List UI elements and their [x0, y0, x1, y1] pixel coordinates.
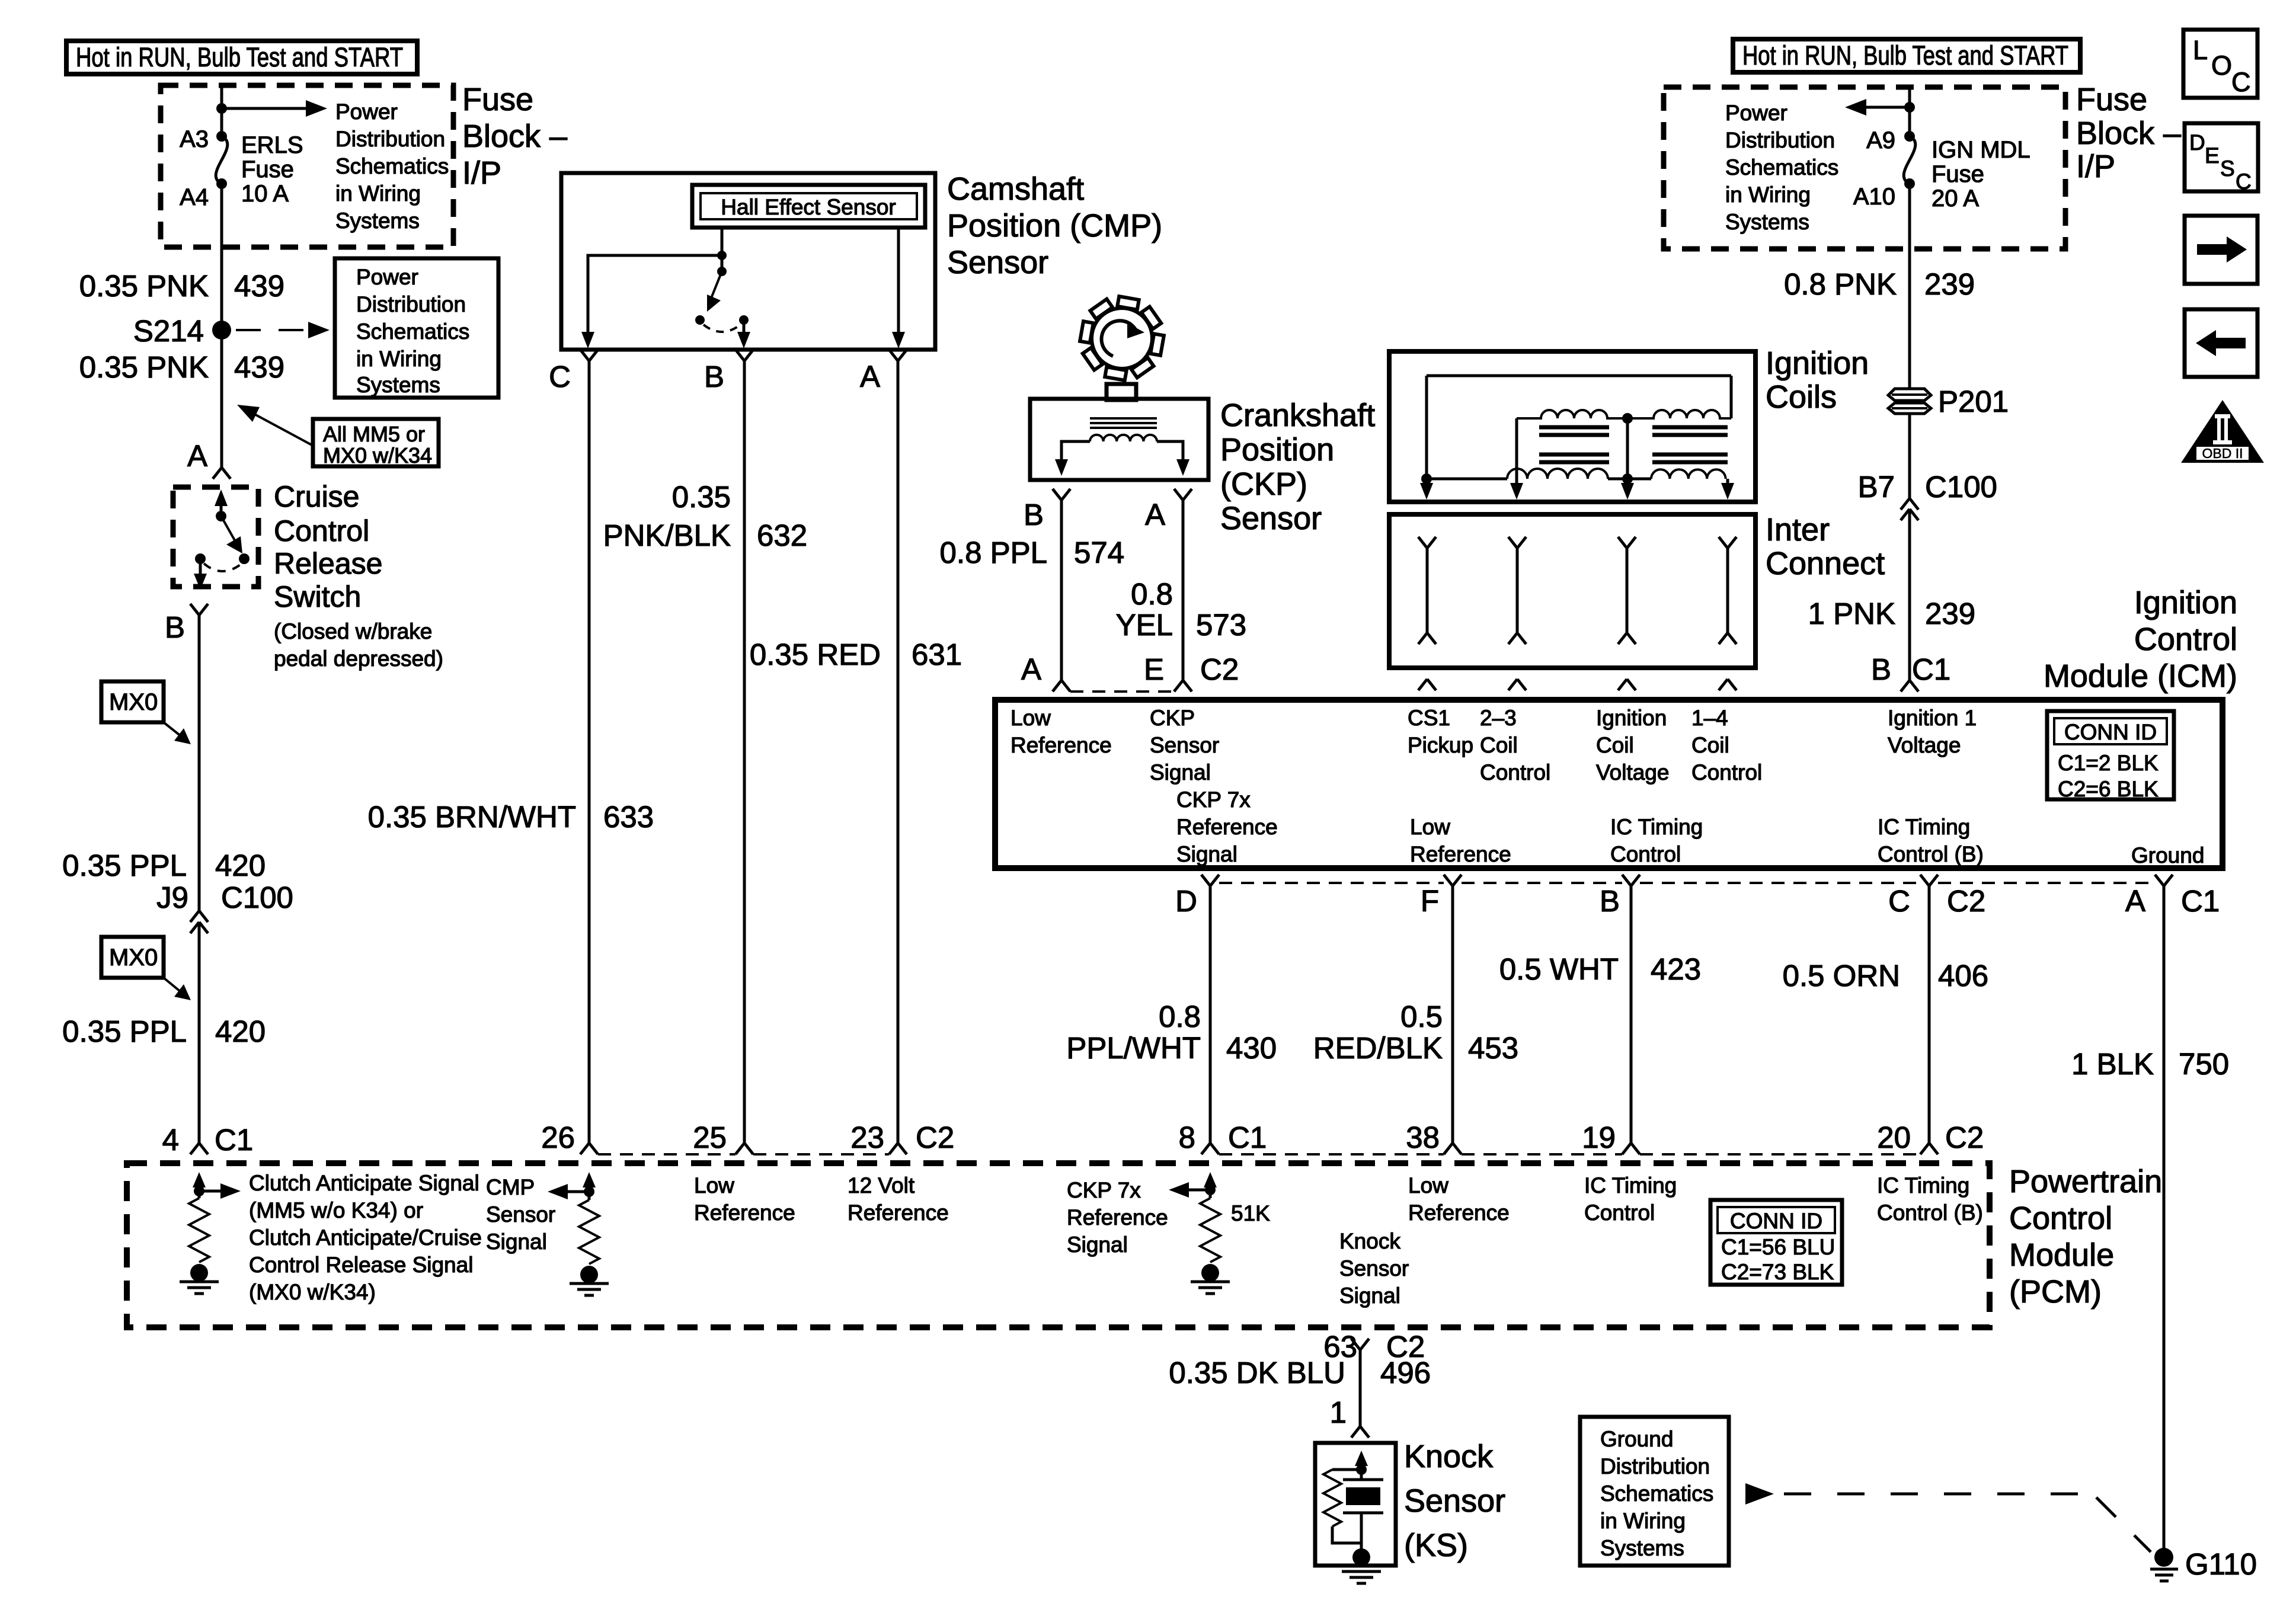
svg-text:(MX0 w/K34): (MX0 w/K34): [249, 1280, 376, 1304]
svg-text:453: 453: [1468, 1031, 1518, 1065]
wire: 0.8 PNK 239: [1908, 184, 1911, 390]
svg-text:A4: A4: [180, 184, 209, 210]
svg-text:Powertrain: Powertrain: [2009, 1164, 2162, 1199]
svg-text:All MM5 or: All MM5 or: [323, 422, 425, 446]
svg-text:I/P: I/P: [2076, 149, 2115, 184]
svg-text:(PCM): (PCM): [2009, 1274, 2102, 1310]
svg-text:Module: Module: [2009, 1237, 2114, 1273]
svg-text:420: 420: [215, 849, 266, 882]
transformer 1 core: [1539, 427, 1609, 462]
CMP pins C B A: [580, 350, 598, 361]
svg-text:Camshaft: Camshaft: [947, 171, 1084, 207]
svg-text:(KS): (KS): [1404, 1528, 1468, 1563]
svg-text:Low: Low: [694, 1173, 734, 1198]
svg-text:Signal: Signal: [1150, 760, 1211, 785]
svg-text:PNK/BLK: PNK/BLK: [603, 518, 731, 552]
svg-text:C1: C1: [1912, 652, 1950, 686]
svg-text:C1: C1: [2181, 884, 2220, 918]
gear icon: [1080, 296, 1164, 380]
svg-text:632: 632: [757, 518, 807, 552]
svg-text:S: S: [2220, 156, 2235, 181]
svg-text:12 Volt: 12 Volt: [848, 1173, 915, 1198]
svg-text:Knock: Knock: [1339, 1229, 1400, 1253]
svg-text:Control: Control: [1584, 1201, 1655, 1225]
ignition coils box: [1389, 351, 1755, 502]
svg-text:0.35 PNK: 0.35 PNK: [79, 269, 209, 303]
box: All MM5 or MX0 w/K34: [313, 419, 439, 466]
CKP pins B A: [1053, 489, 1070, 500]
svg-text:MX0: MX0: [109, 945, 158, 971]
MX0 flag 1: [101, 681, 164, 722]
svg-text:Reference: Reference: [1067, 1205, 1168, 1230]
box: Hot in RUN, Bulb Test and START (right): [1733, 39, 2080, 72]
MX0 flag 2: [101, 937, 164, 978]
svg-text:8: 8: [1179, 1121, 1195, 1154]
svg-text:Ignition 1: Ignition 1: [1888, 706, 1977, 730]
navigation icon arrow right: [2185, 216, 2257, 284]
svg-text:CONN ID: CONN ID: [1730, 1209, 1822, 1233]
wire: arrow to Power Distribution Schematics (left fuse box): [222, 107, 311, 110]
svg-text:0.35 PNK: 0.35 PNK: [79, 350, 209, 384]
svg-text:Coil: Coil: [1691, 733, 1729, 757]
svg-text:Distribution: Distribution: [1725, 128, 1835, 152]
svg-text:(Closed w/brake: (Closed w/brake: [274, 619, 432, 644]
fuse IGN MDL 20A: [1904, 131, 1915, 142]
svg-text:Power: Power: [356, 265, 418, 289]
svg-text:0.8 PPL: 0.8 PPL: [940, 536, 1047, 569]
wire: 1 BLK 750 (ICM ground to G110): [2155, 875, 2173, 886]
svg-text:573: 573: [1196, 608, 1246, 642]
svg-text:CS1: CS1: [1408, 706, 1450, 730]
ICM box: [995, 700, 2223, 868]
svg-text:430: 430: [1226, 1031, 1277, 1065]
svg-text:Systems: Systems: [356, 373, 440, 397]
svg-text:0.5: 0.5: [1400, 1000, 1443, 1033]
ground G110: [2154, 1548, 2173, 1567]
svg-text:439: 439: [234, 269, 284, 303]
svg-text:C: C: [2236, 169, 2252, 194]
svg-text:420: 420: [215, 1014, 266, 1048]
svg-text:631: 631: [912, 638, 962, 671]
ICM pin F: [1444, 875, 1462, 886]
inter connect box: [1389, 514, 1755, 668]
svg-text:Distribution: Distribution: [335, 127, 445, 151]
svg-text:0.8: 0.8: [1159, 1000, 1201, 1033]
svg-text:F: F: [1421, 884, 1439, 918]
coils vertical links: [1517, 418, 1728, 486]
svg-text:Clutch Anticipate Signal: Clutch Anticipate Signal: [249, 1171, 479, 1195]
coils bottom rail: [1427, 479, 1651, 486]
svg-text:0.5 ORN: 0.5 ORN: [1783, 959, 1900, 993]
svg-text:439: 439: [234, 350, 284, 384]
svg-text:Systems: Systems: [335, 209, 420, 233]
svg-text:B: B: [165, 610, 185, 644]
svg-text:0.35 PPL: 0.35 PPL: [62, 849, 187, 882]
svg-text:Schematics: Schematics: [1725, 155, 1838, 180]
svg-text:Control: Control: [2009, 1201, 2112, 1236]
svg-text:B: B: [1024, 498, 1044, 532]
svg-text:B7: B7: [1858, 470, 1895, 504]
svg-text:38: 38: [1406, 1121, 1440, 1154]
svg-text:PPL/WHT: PPL/WHT: [1066, 1031, 1201, 1065]
svg-text:C2=6 BLK: C2=6 BLK: [2058, 777, 2159, 801]
svg-text:C1: C1: [1228, 1121, 1267, 1154]
svg-text:Coils: Coils: [1766, 379, 1837, 415]
fuse ERLS 10A: [216, 131, 227, 142]
svg-text:Position (CMP): Position (CMP): [947, 208, 1162, 244]
svg-text:20: 20: [1877, 1121, 1911, 1154]
svg-text:Schematics: Schematics: [356, 319, 469, 344]
node: junction above ERLS fuse: [216, 103, 227, 114]
svg-text:OBD II: OBD II: [2202, 446, 2243, 461]
svg-text:Fuse: Fuse: [2076, 82, 2147, 117]
navigation icon LOC: [2183, 30, 2257, 98]
svg-text:ERLS: ERLS: [241, 132, 303, 158]
svg-text:C2: C2: [916, 1121, 954, 1154]
svg-text:Control: Control: [274, 514, 369, 548]
svg-text:Voltage: Voltage: [1888, 733, 1961, 757]
dashed connector row under ICM: [1219, 882, 2155, 884]
svg-text:Sensor: Sensor: [1220, 501, 1322, 536]
switch exit arrow: [199, 559, 202, 576]
svg-text:CKP: CKP: [1150, 706, 1195, 730]
svg-text:Signal: Signal: [1176, 842, 1237, 866]
svg-text:Ignition: Ignition: [2134, 585, 2237, 620]
svg-text:A: A: [1021, 652, 1041, 686]
wire: (A->23): [897, 361, 900, 1143]
svg-text:Control Release Signal: Control Release Signal: [249, 1253, 473, 1277]
svg-text:0.35 RED: 0.35 RED: [750, 638, 881, 671]
svg-text:CKP 7x: CKP 7x: [1067, 1178, 1141, 1202]
svg-text:Schematics: Schematics: [1600, 1481, 1713, 1506]
svg-text:Ground: Ground: [1600, 1427, 1673, 1451]
svg-text:Cruise: Cruise: [274, 480, 359, 513]
wire: 0.35 RED 631 (B->25): [743, 361, 746, 1143]
svg-text:Sensor: Sensor: [1339, 1256, 1409, 1281]
svg-text:Control (B): Control (B): [1877, 1201, 1983, 1225]
svg-text:Module (ICM): Module (ICM): [2044, 658, 2237, 694]
svg-text:C: C: [549, 360, 571, 393]
svg-text:574: 574: [1074, 536, 1124, 569]
box: Power Distribution Schematics in Wiring Systems (solid): [335, 258, 498, 398]
transformer 2 secondary: [1651, 469, 1726, 479]
svg-text:20 A: 20 A: [1932, 185, 1979, 212]
svg-text:Schematics: Schematics: [335, 154, 449, 178]
svg-text:E: E: [2205, 143, 2220, 168]
svg-text:C2: C2: [1947, 884, 1985, 918]
svg-text:Pickup: Pickup: [1408, 733, 1473, 757]
switch blade: [221, 516, 236, 543]
node above fuse: [1904, 102, 1915, 113]
svg-text:CONN ID: CONN ID: [2064, 720, 2157, 744]
svg-text:Hot in RUN, Bulb Test and STAR: Hot in RUN, Bulb Test and START: [76, 42, 403, 72]
svg-text:G110: G110: [2185, 1547, 2257, 1581]
PCM pin 8 internals: [1204, 1172, 1217, 1188]
switch contacts: [239, 553, 250, 564]
svg-text:S214: S214: [133, 314, 204, 348]
svg-text:Sensor: Sensor: [1404, 1483, 1505, 1519]
svg-text:B: B: [1600, 884, 1620, 918]
svg-text:Connect: Connect: [1766, 546, 1885, 581]
svg-text:1: 1: [1330, 1395, 1347, 1429]
svg-text:633: 633: [603, 800, 654, 834]
svg-text:IGN MDL: IGN MDL: [1932, 137, 2030, 163]
svg-text:Power: Power: [335, 100, 398, 124]
svg-text:Clutch Anticipate/Cruise: Clutch Anticipate/Cruise: [249, 1225, 482, 1250]
transformer 1 secondary: [1507, 469, 1608, 479]
svg-text:Systems: Systems: [1725, 210, 1809, 234]
svg-text:Low: Low: [1410, 815, 1450, 839]
wire: 0.35 PPL 420 down to C100: [198, 615, 201, 911]
CKP core: [1090, 418, 1157, 428]
svg-text:Signal: Signal: [1067, 1233, 1128, 1257]
KS internals: [1355, 1451, 1368, 1466]
svg-text:MX0: MX0: [109, 689, 158, 715]
CMP internal: A output: [897, 228, 900, 335]
wire: 0.8 YEL 573: [1182, 500, 1185, 680]
svg-text:in Wiring: in Wiring: [356, 347, 442, 371]
ICM pin C C2: [1920, 875, 1938, 886]
svg-text:239: 239: [1924, 267, 1975, 301]
svg-text:1–4: 1–4: [1691, 706, 1728, 730]
svg-text:Hall Effect Sensor: Hall Effect Sensor: [721, 195, 896, 219]
navigation icon arrow left: [2185, 309, 2257, 377]
wire: dashed arrow S214 to Power Distribution box: [236, 329, 303, 331]
svg-text:Position: Position: [1220, 432, 1334, 468]
fuse block I/P dashed box (left): [161, 85, 453, 247]
svg-text:Fuse: Fuse: [1932, 161, 1984, 187]
svg-text:A: A: [860, 360, 880, 393]
CKP coil: [1090, 435, 1157, 441]
svg-text:750: 750: [2179, 1047, 2229, 1081]
wire: arrow from All-MM5 box to wire: [251, 412, 313, 446]
svg-text:0.35 BRN/WHT: 0.35 BRN/WHT: [368, 800, 576, 834]
svg-text:Control: Control: [1610, 842, 1681, 866]
svg-text:Systems: Systems: [1600, 1536, 1684, 1560]
svg-text:CMP: CMP: [486, 1175, 535, 1199]
svg-text:A: A: [1145, 498, 1165, 532]
dashed connector row 26-25-23: [598, 1153, 889, 1156]
coils top rail: [1427, 376, 1731, 479]
svg-text:D: D: [1175, 884, 1197, 918]
svg-text:Voltage: Voltage: [1596, 760, 1669, 785]
svg-text:Sensor: Sensor: [486, 1202, 555, 1227]
svg-text:A9: A9: [1866, 127, 1895, 153]
svg-text:0.8 PNK: 0.8 PNK: [1784, 267, 1897, 301]
svg-text:C100: C100: [221, 881, 293, 914]
box: Hot in RUN, Bulb Test and START (left): [66, 41, 417, 74]
svg-text:Switch: Switch: [274, 580, 361, 613]
svg-text:1 BLK: 1 BLK: [2071, 1047, 2154, 1081]
CKP pigtail: [1107, 384, 1136, 400]
PCM pin 4 internals: [193, 1172, 206, 1188]
svg-text:IC Timing: IC Timing: [1584, 1173, 1677, 1198]
PCM dashed box: [127, 1163, 1990, 1327]
svg-text:A10: A10: [1853, 184, 1895, 210]
svg-text:Control (B): Control (B): [1878, 842, 1984, 866]
svg-text:Control: Control: [1480, 760, 1550, 785]
CMP sensor box: [561, 173, 935, 350]
svg-text:239: 239: [1925, 597, 1975, 630]
CKP sensor box: [1030, 399, 1208, 480]
svg-text:B: B: [1871, 652, 1891, 686]
svg-text:C1=56 BLU: C1=56 BLU: [1721, 1235, 1835, 1259]
svg-text:C2: C2: [1200, 652, 1239, 686]
ground distribution box: [1580, 1417, 1729, 1566]
svg-text:Low: Low: [1011, 706, 1051, 730]
dashed arrow to G110: [1745, 1483, 1774, 1505]
svg-text:in Wiring: in Wiring: [1600, 1509, 1686, 1533]
svg-text:Hot in RUN, Bulb Test and STAR: Hot in RUN, Bulb Test and START: [1742, 40, 2068, 71]
svg-text:Signal: Signal: [1339, 1283, 1400, 1308]
svg-text:0.5 WHT: 0.5 WHT: [1499, 952, 1619, 986]
svg-text:19: 19: [1582, 1121, 1616, 1154]
svg-text:A3: A3: [180, 126, 209, 152]
svg-text:406: 406: [1938, 959, 1988, 993]
svg-text:496: 496: [1380, 1356, 1431, 1390]
svg-text:Control: Control: [2134, 622, 2237, 657]
svg-text:Distribution: Distribution: [1600, 1454, 1710, 1478]
svg-text:in Wiring: in Wiring: [335, 181, 421, 206]
svg-text:A: A: [187, 439, 207, 473]
svg-text:Sensor: Sensor: [947, 245, 1048, 280]
svg-text:C: C: [1888, 884, 1910, 918]
svg-text:A: A: [2125, 884, 2145, 918]
svg-text:Sensor: Sensor: [1150, 733, 1219, 757]
arrow left to Power Distribution text: [1861, 106, 1910, 109]
ICM CONN ID table: [2047, 711, 2174, 799]
ICM pin D: [1201, 875, 1219, 886]
wire: 0.8 PPL 574: [1060, 500, 1063, 680]
svg-text:Release: Release: [274, 547, 382, 580]
svg-text:423: 423: [1651, 952, 1701, 986]
PCM CONN ID table: [1710, 1200, 1842, 1285]
wire: 0.35 PNK 439 (fuse to S214): [220, 184, 223, 468]
svg-text:26: 26: [541, 1121, 575, 1154]
svg-text:2–3: 2–3: [1480, 706, 1517, 730]
OBD II badge: [2181, 400, 2264, 463]
svg-text:I/P: I/P: [462, 155, 501, 191]
interconnect wires: [1418, 537, 1737, 644]
svg-text:0.8: 0.8: [1131, 577, 1173, 611]
svg-text:C2: C2: [1945, 1121, 1984, 1154]
transformer 2 core: [1652, 427, 1728, 462]
PCM pin 26 internals: [583, 1172, 596, 1188]
svg-text:25: 25: [693, 1121, 727, 1154]
svg-text:P201: P201: [1938, 385, 2009, 418]
svg-text:C2=73 BLK: C2=73 BLK: [1721, 1260, 1834, 1284]
svg-text:Reference: Reference: [1176, 815, 1278, 839]
svg-text:YEL: YEL: [1116, 608, 1173, 642]
svg-text:Fuse: Fuse: [241, 156, 294, 183]
svg-text:L: L: [2193, 35, 2208, 65]
node S214: [212, 321, 231, 340]
svg-text:Signal: Signal: [486, 1230, 547, 1254]
svg-text:C: C: [2231, 67, 2251, 97]
svg-text:IC Timing: IC Timing: [1878, 815, 1970, 839]
svg-text:Block –: Block –: [2076, 116, 2181, 151]
svg-text:C1: C1: [215, 1123, 253, 1157]
transformer 1 primary: [1517, 410, 1627, 418]
svg-text:Fuse: Fuse: [462, 82, 533, 117]
dashed connector row 8-38-19-20: [1219, 1153, 1920, 1156]
Hall Effect Sensor box: [692, 185, 925, 228]
svg-text:Knock: Knock: [1404, 1439, 1494, 1474]
svg-text:Block –: Block –: [462, 119, 567, 154]
svg-text:Distribution: Distribution: [356, 292, 466, 316]
svg-text:0.35 PPL: 0.35 PPL: [62, 1014, 187, 1048]
svg-text:D: D: [2189, 130, 2205, 155]
dashed wire A to E: [1070, 690, 1174, 693]
CMP internal: B output: [743, 320, 746, 335]
svg-text:IC Timing: IC Timing: [1877, 1173, 1969, 1198]
PCM pin 63 C2: [1351, 1339, 1369, 1350]
svg-text:0.35: 0.35: [672, 480, 731, 514]
svg-text:J9: J9: [156, 881, 188, 914]
svg-text:Reference: Reference: [848, 1201, 949, 1225]
connector P201: [1888, 389, 1931, 414]
svg-text:10 A: 10 A: [241, 181, 289, 207]
coils output arrows: [1420, 483, 1433, 500]
svg-text:Reference: Reference: [1011, 733, 1112, 757]
wire into IGN MDL fuse: [1908, 87, 1911, 136]
svg-text:Coil: Coil: [1480, 733, 1518, 757]
svg-text:Control: Control: [1691, 760, 1762, 785]
svg-text:O: O: [2211, 50, 2232, 81]
svg-text:1 PNK: 1 PNK: [1808, 597, 1895, 630]
svg-text:Low: Low: [1408, 1173, 1448, 1198]
wire to B7 C100: [1908, 414, 1911, 498]
svg-text:CKP 7x: CKP 7x: [1176, 788, 1251, 812]
svg-text:Reference: Reference: [1408, 1201, 1510, 1225]
svg-text:23: 23: [850, 1121, 884, 1154]
svg-text:Power: Power: [1725, 101, 1787, 125]
wire: feed into ERLS fuse: [220, 85, 223, 136]
svg-text:Reference: Reference: [1410, 842, 1511, 866]
knock sensor box: [1315, 1443, 1396, 1566]
CMP internal: link to C output: [588, 255, 722, 335]
CMP internal: hall output wire: [721, 228, 724, 271]
svg-text:Reference: Reference: [694, 1201, 795, 1225]
svg-text:Crankshaft: Crankshaft: [1220, 398, 1375, 433]
svg-text:(MM5 w/o K34) or: (MM5 w/o K34) or: [249, 1198, 423, 1222]
svg-text:51K: 51K: [1231, 1201, 1270, 1225]
fuse block I/P dashed box (right): [1664, 87, 2065, 249]
ICM pin B: [1622, 875, 1640, 886]
wire: 0.35 PNK/BLK 632 (C): [588, 361, 591, 1143]
svg-text:Ignition: Ignition: [1766, 345, 1869, 381]
svg-text:in Wiring: in Wiring: [1725, 183, 1811, 207]
svg-text:4: 4: [162, 1123, 179, 1157]
svg-text:C100: C100: [1925, 470, 1997, 504]
transformer 2 primary: [1627, 410, 1731, 418]
svg-text:IC Timing: IC Timing: [1610, 815, 1703, 839]
cruise control release switch dashed box: [173, 487, 258, 587]
CKP leads: [1061, 441, 1090, 461]
svg-text:MX0 w/K34: MX0 w/K34: [323, 443, 432, 468]
chevrons into ICM: [1418, 679, 1436, 690]
svg-text:Inter: Inter: [1766, 512, 1830, 548]
svg-text:Coil: Coil: [1596, 733, 1634, 757]
svg-text:Ground: Ground: [2131, 843, 2204, 868]
svg-text:0.35 DK BLU: 0.35 DK BLU: [1169, 1356, 1345, 1390]
navigation icon DESC: [2185, 123, 2258, 191]
switch arm entering arrow: [215, 489, 228, 506]
svg-text:B: B: [704, 360, 724, 393]
connector fork B: [190, 604, 208, 615]
svg-text:E: E: [1144, 652, 1164, 686]
svg-text:(CKP): (CKP): [1220, 466, 1307, 502]
